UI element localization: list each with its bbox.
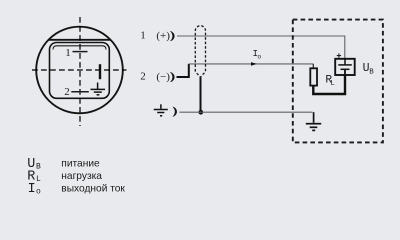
connector ground pin (91, 83, 106, 95)
svg-text:L: L (330, 80, 335, 88)
svg-text:o: o (257, 54, 261, 61)
svg-text:2: 2 (64, 86, 70, 98)
connector square body (50, 43, 110, 99)
svg-text:2: 2 (140, 71, 146, 83)
pin 2 tick (71, 91, 89, 93)
svg-text:B: B (36, 163, 41, 172)
svg-text:B: B (369, 69, 374, 77)
connector face circle (36, 27, 123, 114)
battery cell (338, 59, 352, 75)
svg-text:(−): (−) (156, 71, 170, 83)
wire row 2 step (177, 64, 189, 77)
shield drain wire (200, 77, 202, 112)
load dashed box (293, 20, 383, 143)
svg-text:o: o (36, 187, 41, 196)
wire row 2 (189, 63, 313, 65)
left earth ground (154, 104, 168, 116)
svg-text:I: I (28, 182, 36, 197)
svg-text:1: 1 (65, 47, 71, 59)
cable shield capsule (195, 26, 205, 78)
load bottom wire (313, 75, 345, 94)
contact 2 (170, 72, 174, 82)
connector top chord (49, 39, 111, 41)
current arrow Io (251, 62, 257, 66)
svg-text:1: 1 (140, 30, 146, 42)
svg-text:нагрузка: нагрузка (61, 171, 102, 182)
plus sign (337, 53, 341, 57)
svg-text:(+): (+) (156, 30, 170, 42)
right earth ground (306, 112, 321, 130)
horizontal centerline (32, 69, 127, 71)
battery UB box (335, 59, 355, 75)
wire row 3 (179, 111, 312, 113)
contact 1 (170, 31, 174, 41)
wire row 1 (177, 36, 345, 59)
connector inner top line (53, 46, 106, 50)
junction dot (198, 110, 203, 115)
svg-text:выходной ток: выходной ток (61, 183, 125, 194)
connector blade pin (99, 64, 101, 79)
resistor RL (312, 64, 314, 68)
svg-text:питание: питание (61, 159, 100, 170)
pin 1 tick (73, 51, 88, 53)
svg-text:L: L (36, 175, 41, 184)
contact 3 (173, 107, 177, 117)
vertical centerline (79, 17, 81, 126)
